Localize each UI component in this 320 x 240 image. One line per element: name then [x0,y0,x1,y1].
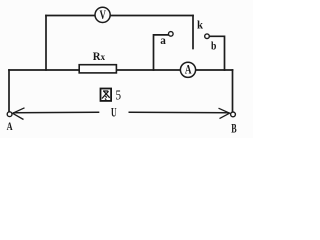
resistor Rx body [79,65,116,73]
wire: contact-a branch to middle bus [154,35,169,70]
ammeter U2 circle [180,62,195,77]
svg-text:B: B [231,121,236,135]
wire: top bus to switch pole corner [46,15,193,17]
voltmeter U1 circle [95,7,110,22]
wire: middle bus from left corner to right corner [9,69,233,71]
wire: contact-b branch to middle bus [209,36,224,70]
svg-text:U: U [111,105,117,120]
node A terminal circle [7,112,12,117]
figure label 图5 (drawn glyph for 图) [101,89,112,101]
node B terminal circle [231,112,236,117]
switch contact b circle [205,34,210,39]
wire: right riser down to terminal B [232,70,234,112]
wire: switch pole k vertical [192,16,194,49]
svg-text:Rx: Rx [93,51,105,63]
wire: left riser down to terminal A [8,70,10,112]
dimension arrow U: right segment with arrowhead at B [129,111,230,114]
dimension arrow U: left segment with arrowhead at A [13,108,230,120]
svg-text:5: 5 [115,89,121,104]
switch contact a circle [169,32,174,37]
svg-text:k: k [197,17,203,31]
wire: top branch riser at x=46 [45,16,47,71]
svg-text:a: a [160,33,166,47]
svg-text:A: A [7,119,13,133]
svg-text:V: V [100,7,107,22]
svg-text:A: A [185,63,192,77]
svg-text:b: b [211,39,217,53]
